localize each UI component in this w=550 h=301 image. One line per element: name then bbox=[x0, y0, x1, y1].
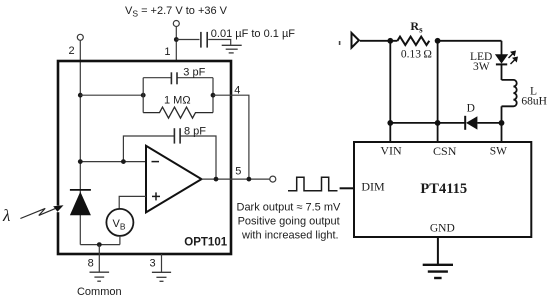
wire pin8 to ground bbox=[98, 245, 100, 273]
wire feedback loop right bbox=[212, 78, 214, 113]
svg-text:3: 3 bbox=[149, 258, 155, 270]
op-amp U1 bbox=[146, 146, 202, 213]
wire bottom rail bbox=[80, 244, 120, 246]
svg-text:with increased light.: with increased light. bbox=[241, 230, 339, 242]
svg-text:λ: λ bbox=[2, 206, 10, 225]
junction inverting/photodiode bbox=[78, 159, 83, 164]
input buffer triangle bbox=[352, 33, 359, 48]
capacitor C 3pF bbox=[143, 72, 213, 84]
wire LED column upper bbox=[501, 41, 503, 55]
terminal pin2 bbox=[77, 34, 83, 40]
junction pin2/feedback bbox=[78, 93, 83, 98]
junction CSN column top bbox=[435, 38, 441, 44]
wire SW column lower bbox=[501, 123, 503, 142]
svg-text:4: 4 bbox=[234, 85, 240, 97]
svg-text:8 pF: 8 pF bbox=[184, 126, 206, 138]
stray mark bbox=[339, 41, 341, 45]
wire inductor to SW node bbox=[501, 106, 503, 123]
capacitor bypass 0.01uF plates bbox=[201, 32, 207, 48]
node feedback left bbox=[141, 93, 146, 98]
resistor 1 Mohm bbox=[143, 107, 213, 118]
IC body OPT101 bbox=[58, 61, 231, 254]
ground bypass bbox=[222, 45, 242, 53]
svg-text:Positive going output: Positive going output bbox=[238, 216, 340, 228]
junction output/8pF bbox=[214, 177, 219, 182]
svg-text:Rs: Rs bbox=[410, 19, 423, 34]
ground pin8 bbox=[90, 272, 110, 281]
diode D cathode bar bbox=[464, 116, 466, 130]
wire VB to bottom rail bbox=[119, 236, 121, 245]
light arrow bbox=[20, 205, 63, 218]
wire input to Rs bbox=[360, 40, 398, 42]
wire CSN column bbox=[437, 41, 439, 142]
junction diode/VIN bbox=[387, 120, 393, 126]
diode D triangle bbox=[466, 116, 477, 129]
wire noninverting input bbox=[119, 196, 146, 208]
svg-text:1 MΩ: 1 MΩ bbox=[164, 95, 191, 107]
junction inverting/8pF bbox=[121, 159, 126, 164]
svg-text:DIM: DIM bbox=[361, 180, 385, 194]
wire feedback node horizontal bbox=[80, 94, 143, 96]
svg-text:0.01 µF to 0.1 µF: 0.01 µF to 0.1 µF bbox=[211, 28, 295, 40]
photodiode D1 cathode bar bbox=[70, 189, 91, 191]
svg-text:OPT101: OPT101 bbox=[184, 236, 227, 248]
wire VIN column bbox=[389, 41, 391, 142]
svg-text:8: 8 bbox=[88, 258, 94, 270]
resistor Rs bbox=[397, 37, 429, 45]
wire pin2 vertical down to bottom rail bbox=[79, 40, 81, 244]
junction SW/diode bbox=[499, 120, 505, 126]
wire GND pin bbox=[437, 237, 439, 265]
svg-text:3W: 3W bbox=[473, 61, 490, 73]
svg-text:2: 2 bbox=[68, 45, 74, 57]
LED cathode bar bbox=[496, 63, 507, 65]
wire pin1 vertical bbox=[175, 27, 177, 62]
wire inverting input bbox=[80, 161, 146, 163]
IC body PT4115 bbox=[354, 142, 531, 237]
wire pin3 bbox=[161, 254, 163, 272]
svg-text:CSN: CSN bbox=[433, 144, 457, 158]
svg-text:VS = +2.7 V to +36 V: VS = +2.7 V to +36 V bbox=[125, 5, 228, 19]
svg-text:5: 5 bbox=[235, 166, 241, 178]
wire pin4 feedback to output bbox=[213, 95, 249, 179]
ground PT4115 bbox=[423, 265, 453, 278]
junction diode/CSN bbox=[435, 120, 441, 126]
node feedback right bbox=[211, 93, 216, 98]
inductor L coil bbox=[502, 80, 517, 106]
terminal output bbox=[270, 176, 276, 182]
svg-text:PT4115: PT4115 bbox=[420, 181, 467, 197]
voltage source VB bbox=[106, 209, 133, 236]
svg-text:GND: GND bbox=[430, 222, 455, 234]
terminal pin1 (VS) bbox=[173, 21, 179, 27]
label dark output note bbox=[237, 202, 342, 242]
photodiode D1 triangle bbox=[70, 192, 91, 216]
wire DIM lead bbox=[340, 187, 354, 189]
svg-text:Common: Common bbox=[77, 286, 122, 298]
wire pin5 output bbox=[202, 178, 270, 180]
wire freewheel diode rail bbox=[390, 122, 465, 124]
svg-text:3 pF: 3 pF bbox=[183, 67, 205, 79]
waveform pulse train bbox=[288, 177, 338, 190]
junction VIN column top bbox=[387, 38, 393, 44]
junction output/pin4 bbox=[247, 177, 252, 182]
wire bypass to ground bbox=[208, 40, 231, 45]
op-amp plus sign bbox=[152, 192, 160, 200]
junction pin8 bbox=[97, 242, 102, 247]
svg-text:68uH: 68uH bbox=[521, 96, 547, 108]
svg-text:VIN: VIN bbox=[380, 144, 402, 158]
capacitor C 8pF loop bbox=[123, 128, 216, 179]
svg-text:0.13 Ω: 0.13 Ω bbox=[401, 49, 432, 61]
svg-text:1: 1 bbox=[164, 46, 170, 58]
wire LED to inductor bbox=[501, 64, 503, 80]
wire feedback loop left bbox=[142, 78, 144, 113]
wire top rail to LED bbox=[438, 40, 502, 42]
ground pin3 bbox=[152, 272, 171, 281]
LED emission arrows bbox=[509, 51, 519, 65]
junction pin1/bypass bbox=[174, 37, 179, 42]
LED triangle bbox=[495, 54, 508, 63]
svg-text:Dark output ≈ 7.5 mV: Dark output ≈ 7.5 mV bbox=[237, 202, 342, 214]
wire bypass branch bbox=[176, 39, 199, 41]
op-amp minus sign bbox=[152, 161, 160, 163]
svg-text:D: D bbox=[467, 103, 475, 115]
svg-text:SW: SW bbox=[490, 145, 507, 157]
